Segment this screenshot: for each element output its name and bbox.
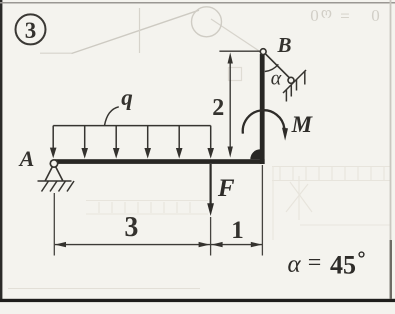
label A: [18, 146, 35, 171]
ghost ladder band right: [272, 167, 390, 181]
frame right faint line: [390, 0, 392, 299]
dimension 2 extension line top: [219, 50, 260, 52]
distributed load line q: [53, 125, 211, 127]
ghost horizontal line: [40, 52, 72, 54]
svg-text:A: A: [18, 146, 35, 171]
svg-text:F: F: [217, 175, 235, 202]
label M: [291, 112, 314, 137]
svg-text:q: q: [121, 85, 133, 110]
label alpha at B: [271, 68, 282, 90]
roller circle at B support: [288, 77, 294, 83]
svg-text:α: α: [271, 68, 282, 90]
svg-text:3: 3: [124, 212, 138, 243]
beam vertical member corner-B: [260, 54, 265, 164]
svg-text:45: 45: [330, 251, 356, 280]
load arrow 5: [176, 126, 183, 159]
roller ground line: [283, 70, 306, 93]
frame top line: [0, 2, 395, 4]
label B: [276, 33, 291, 57]
inclined rod at B: [265, 54, 289, 78]
label 2: [212, 95, 224, 121]
pin B: [260, 49, 266, 55]
ghost diagonal line 2: [211, 19, 262, 53]
svg-text:B: B: [276, 33, 291, 57]
extension line below corner: [261, 165, 263, 256]
ghost faint lines bottom right: [273, 166, 390, 240]
label 1: [231, 217, 244, 244]
load arrow 4: [144, 126, 151, 159]
ghost circle: [192, 7, 222, 37]
force F arrow: [207, 164, 214, 216]
equation alpha = 45 deg: [287, 250, 363, 280]
ghost band under beam: [86, 201, 208, 215]
problem number circle 3: [16, 14, 46, 44]
dimension line 3 and 1: [55, 242, 262, 247]
svg-text:0⃘ = ω0: 0⃘ = ω0: [308, 6, 380, 25]
label q with leader: [105, 85, 133, 126]
dimension 2 line with arrows: [228, 52, 233, 157]
load arrow 6: [207, 126, 214, 159]
load arrow 1: [50, 126, 57, 159]
angle alpha arc: [265, 64, 279, 71]
beam horizontal member A-corner: [55, 159, 265, 164]
ghost vertical line: [139, 8, 141, 53]
frame bottom border: [0, 299, 395, 302]
extension line below A: [53, 193, 55, 256]
label F: [217, 175, 235, 202]
extension line below F: [210, 217, 212, 256]
svg-text:=: =: [308, 250, 322, 276]
ghost line above bottom border: [8, 288, 200, 290]
svg-text:α: α: [287, 251, 301, 278]
ghost diagonal line 1 (bleed-through): [72, 10, 200, 53]
svg-text:2: 2: [212, 95, 224, 121]
svg-text:M: M: [291, 112, 314, 137]
frame left border: [0, 0, 2, 301]
label 3: [124, 212, 138, 243]
moment M arc arrow: [243, 110, 288, 140]
ghost small square: [229, 68, 242, 81]
svg-text:3: 3: [25, 18, 37, 43]
ghost star cluster: [286, 176, 312, 220]
roller hatching: [286, 71, 304, 102]
pin support A: [38, 160, 75, 192]
load arrow 3: [113, 126, 120, 159]
load arrow 2: [81, 126, 88, 159]
corner fillet: [250, 149, 260, 159]
svg-text:1: 1: [231, 217, 244, 244]
ghost mirrored text top right: [308, 6, 380, 25]
